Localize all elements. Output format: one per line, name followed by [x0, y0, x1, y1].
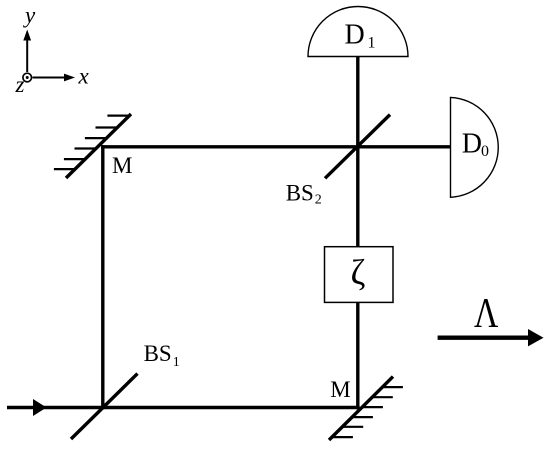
svg-text:y: y — [23, 2, 36, 27]
svg-text:BS: BS — [286, 180, 314, 205]
svg-text:1: 1 — [368, 35, 376, 52]
svg-text:M: M — [330, 377, 350, 402]
svg-text:2: 2 — [315, 193, 322, 208]
svg-text:z: z — [15, 72, 25, 97]
svg-text:D: D — [462, 128, 482, 159]
svg-text:D: D — [345, 20, 365, 51]
svg-text:Λ: Λ — [474, 291, 499, 337]
svg-text:1: 1 — [173, 355, 180, 370]
svg-text:x: x — [78, 64, 90, 89]
svg-text:M: M — [112, 153, 132, 178]
svg-text:ζ: ζ — [351, 252, 366, 292]
svg-text:0: 0 — [481, 143, 489, 160]
svg-text:BS: BS — [144, 341, 172, 366]
